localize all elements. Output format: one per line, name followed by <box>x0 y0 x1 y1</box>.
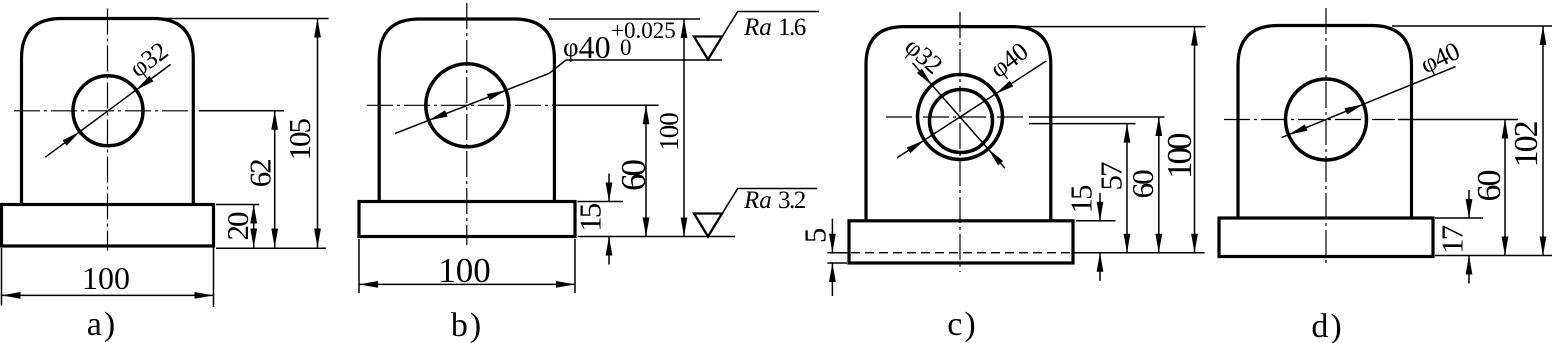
svg-text:57: 57 <box>1094 162 1129 191</box>
view a: vertical centerline <box>107 9 109 251</box>
view b: dimension 100 right <box>683 19 685 237</box>
view a: ext line bottom left <box>1 248 3 306</box>
view b: phi40 leader shelf <box>566 59 722 61</box>
svg-text:d): d) <box>1311 308 1343 343</box>
svg-text:60: 60 <box>1471 171 1508 202</box>
view c: dimension 60 <box>1158 117 1160 253</box>
view b: Ra3.2 symbol triangle <box>694 214 722 237</box>
view c: hidden step line in base <box>851 252 1071 254</box>
svg-text:100: 100 <box>438 251 491 290</box>
view b: base plate <box>359 202 575 237</box>
view b: dimension 60 <box>645 105 647 236</box>
svg-text:φ40: φ40 <box>1416 36 1465 79</box>
view b: dimension 100 bottom <box>359 283 575 285</box>
svg-text:17: 17 <box>1434 225 1469 254</box>
view d: horizontal centerline <box>1224 119 1395 121</box>
view b: body outline <box>379 19 554 202</box>
view b: extension base bottom right <box>578 236 736 238</box>
view a: horizontal centerline <box>14 110 195 112</box>
svg-text:φ32: φ32 <box>899 32 948 80</box>
svg-text:b): b) <box>451 307 483 343</box>
svg-text:3.2: 3.2 <box>778 187 806 214</box>
view a: base plate <box>2 205 214 247</box>
svg-text:60: 60 <box>1125 170 1160 199</box>
view c: ext line base bottom left <box>827 262 847 264</box>
view d: vertical centerline <box>1325 8 1327 266</box>
view d: extension base top right <box>1435 217 1483 219</box>
view c: extension line from outer center <box>1029 116 1165 118</box>
svg-text:Ra: Ra <box>743 187 772 214</box>
view c: phi32 diameter line <box>913 63 1005 168</box>
view d: phi40 diameter line <box>1282 67 1456 138</box>
view c: phi40 diameter line <box>897 61 1046 158</box>
view a: extension line top <box>153 18 329 20</box>
svg-text:Ra: Ra <box>743 14 772 41</box>
view c: horizontal centerline <box>886 116 1026 118</box>
view d: dimension 17 <box>1468 190 1470 218</box>
svg-text:a): a) <box>87 306 117 343</box>
svg-text:105: 105 <box>282 118 317 160</box>
view a: ext line bottom right <box>213 207 215 307</box>
view d: dimension 60 <box>1504 120 1506 256</box>
view c: dimension 5 <box>831 219 833 253</box>
svg-text:100: 100 <box>1160 133 1199 179</box>
view b: phi40 arrow lower-left (inside, pointing out) <box>429 110 448 120</box>
view d: extension at hole center right <box>1398 119 1518 121</box>
view c: phi32 arrow lower-right <box>988 149 1003 166</box>
view c: ext line step left <box>827 252 849 254</box>
view b: phi40 diameter line <box>395 73 549 133</box>
svg-text:15: 15 <box>572 203 607 232</box>
view b: extension top <box>549 18 700 20</box>
view c: dimension 57 <box>1126 124 1128 253</box>
svg-text:0: 0 <box>620 35 632 60</box>
view b: extension at hole center right <box>552 104 659 106</box>
view c: base plate <box>849 221 1073 263</box>
view d: body outline <box>1238 26 1412 219</box>
svg-text:62: 62 <box>242 160 277 188</box>
view a: extension line base top right <box>216 204 259 206</box>
view c: ext line step right <box>1073 252 1205 254</box>
view c: dimension 15 <box>1099 193 1101 221</box>
view b: Ra1.6 symbol triangle <box>694 37 722 60</box>
svg-text:5: 5 <box>798 228 833 243</box>
view c: inner circle phi32 <box>930 90 993 153</box>
view a: extension line at hole center <box>199 110 284 112</box>
svg-text:c): c) <box>947 306 977 343</box>
view b: vertical centerline <box>466 3 468 245</box>
view d: phi40 arrow lower-left (inside, pointing out) <box>1289 125 1308 135</box>
view d: dimension 102 right <box>1542 26 1544 256</box>
view c: phi40 arrow upper-right <box>996 81 1014 94</box>
view d: base plate <box>1219 218 1433 257</box>
svg-text:20: 20 <box>220 212 255 241</box>
view d: extension base bottom right <box>1435 255 1552 257</box>
view a: phi32 arrow upper-right (outside, pointing in) <box>136 76 153 90</box>
view c: extension base top right <box>1076 220 1116 222</box>
view a: dimension 100 bottom <box>2 294 214 296</box>
view b: Ra1.6 symbol flank <box>708 12 819 60</box>
view b: ext line bottom left <box>358 239 360 293</box>
view c: extension line from inner center <box>1029 123 1136 125</box>
view a: phi32 arrow lower-left (outside, pointing in) <box>63 132 80 146</box>
view c: vertical centerline <box>959 12 961 272</box>
svg-text:60: 60 <box>614 160 653 192</box>
view b: extension base top right <box>578 201 624 203</box>
svg-text:φ40: φ40 <box>563 29 611 65</box>
view a: extension line base bottom right <box>216 247 326 249</box>
view a: dimension 62 <box>274 111 276 248</box>
view d: extension top <box>1392 25 1552 27</box>
view c: dimension 100 right <box>1194 27 1196 253</box>
view c: outer circle phi40 <box>918 75 1003 160</box>
view d: hole circle phi40 <box>1286 79 1367 160</box>
view b: horizontal centerline <box>367 104 548 106</box>
svg-text:100: 100 <box>654 113 684 151</box>
view a: hole circle phi32 <box>73 76 143 146</box>
svg-text:1.6: 1.6 <box>778 14 806 41</box>
view c: extension top <box>1016 26 1206 28</box>
view c: phi40 arrow lower-left <box>907 140 925 153</box>
view c: phi32 arrow upper-left <box>917 69 932 86</box>
view b: phi40 leader bend <box>549 60 566 73</box>
view b: hole circle phi40 <box>426 64 509 147</box>
svg-text:φ32: φ32 <box>124 36 173 83</box>
view a: body outline <box>22 19 194 205</box>
view d: phi40 arrow upper-right (inside, pointing out) <box>1345 104 1364 114</box>
svg-text:102: 102 <box>1508 121 1545 167</box>
view b: phi40 arrow upper-right (inside, pointing out) <box>487 90 506 100</box>
svg-text:φ40: φ40 <box>984 36 1033 83</box>
view c: body outline <box>866 27 1051 221</box>
view b: dimension 15 <box>608 174 610 202</box>
svg-text:100: 100 <box>82 260 130 296</box>
view b: Ra3.2 symbol flank <box>708 189 817 237</box>
view a: dimension 105 <box>317 19 319 248</box>
view a: phi32 diameter line <box>45 64 170 157</box>
view a: dimension 20 <box>253 205 255 248</box>
view b: ext line bottom right <box>574 239 576 293</box>
